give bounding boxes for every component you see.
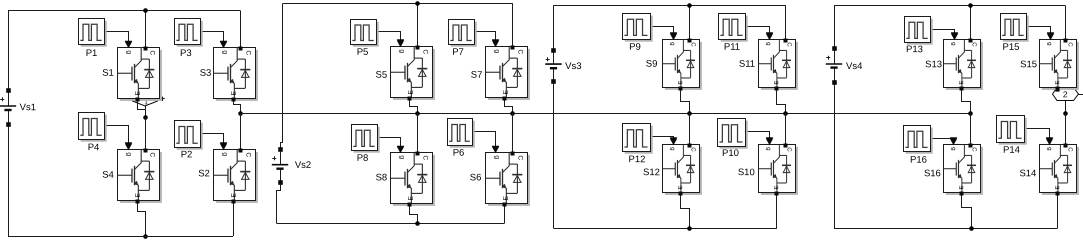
wire top bus to S3 collector: [240, 11, 242, 48]
svg-text:E: E: [1055, 81, 1061, 85]
wire P3 output to S3 gate: [200, 32, 228, 48]
svg-text:E: E: [678, 186, 684, 190]
wire S4 emitter to bottom bus: [138, 202, 146, 237]
svg-text:E: E: [135, 91, 142, 96]
svg-text:C: C: [421, 155, 428, 160]
svg-text:C: C: [516, 155, 523, 160]
wire S9 collector to top bus: [689, 5, 691, 39]
node A (S1/S4 midpoint): [143, 115, 148, 120]
pulse generator P5: [351, 20, 379, 58]
wire S1 emitter to node A: [138, 100, 146, 118]
wire S5 collector to top bus: [417, 3, 419, 46]
svg-text:C: C: [421, 49, 428, 54]
svg-text:g: g: [1046, 147, 1052, 150]
svg-text:C: C: [516, 49, 523, 54]
wire P4 output to S4 gate: [105, 126, 133, 150]
wire Vs2 - terminal to bottom bus: [277, 183, 281, 224]
wire rail to S16 collector: [970, 113, 972, 144]
wire rail to S6 collector: [512, 113, 514, 153]
svg-text:P10: P10: [722, 148, 739, 159]
svg-text:g: g: [493, 49, 500, 53]
wire top bus cell 3 left drop to Vs3: [553, 5, 555, 50]
svg-text:E: E: [959, 186, 965, 190]
svg-text:g: g: [398, 155, 405, 159]
wire top bus cell 4: [834, 5, 1065, 7]
pulse generator P7: [449, 20, 477, 58]
wire cascade rail (node B to cell 4): [240, 113, 970, 115]
wire P5 output to S5 gate: [378, 32, 405, 47]
svg-text:S15: S15: [1020, 59, 1037, 70]
DC voltage source Vs1: [0, 88, 36, 127]
svg-text:P1: P1: [86, 48, 98, 59]
wire top bus cell 2: [283, 3, 513, 5]
wire bottom bus cell 4: [834, 228, 1058, 230]
node C (port 2 / S14 collector): [1063, 111, 1068, 116]
wire port 1 to node A: [145, 106, 147, 117]
wire P16 output to S16 gate: [931, 137, 958, 144]
svg-text:P14: P14: [1003, 145, 1020, 156]
wire top bus cell 4 left drop to Vs4: [834, 5, 836, 48]
pulse generator P4: [79, 113, 107, 154]
DC voltage source Vs2: [272, 147, 311, 185]
svg-text:S12: S12: [643, 167, 660, 178]
svg-text:C: C: [690, 42, 696, 47]
IGBT/diode S14: [1019, 139, 1078, 196]
node rail / S9 leg junction: [687, 111, 692, 116]
wire S5 emitter to rail: [410, 99, 418, 114]
svg-text:E: E: [1055, 186, 1061, 190]
node rail end / S13 leg junction: [968, 111, 973, 116]
svg-text:E: E: [408, 196, 415, 201]
wire P14 output to S14 gate: [1025, 129, 1054, 145]
svg-text:Vs3: Vs3: [565, 61, 581, 72]
svg-text:S14: S14: [1019, 168, 1036, 179]
wire Vs1 left drop (top bus to Vs1 + terminal): [8, 11, 10, 91]
node rail / S5 leg junction: [415, 111, 420, 116]
svg-text:S5: S5: [375, 70, 387, 81]
output port 1 (+ terminal tag): [133, 93, 165, 107]
wire P12 output to S12 gate: [651, 137, 678, 145]
wire P9 output to S9 gate: [651, 27, 678, 40]
node top bus / S9 collector junction: [687, 3, 692, 8]
IGBT/diode S2: [198, 144, 258, 204]
node B (S3/S2 midpoint): [238, 111, 243, 116]
svg-text:g: g: [765, 147, 771, 150]
wire P11 output to S11 gate: [746, 27, 774, 40]
node top bus / S5 collector junction: [415, 1, 420, 6]
svg-text:E: E: [135, 193, 142, 198]
output port 2 (- terminal tag): [1053, 87, 1083, 100]
svg-text:g: g: [493, 155, 500, 159]
svg-text:P11: P11: [724, 42, 740, 53]
node top bus / S13 collector junction: [968, 3, 973, 8]
wire Vs1 - terminal to bottom bus: [8, 124, 10, 236]
IGBT/diode S11: [739, 34, 798, 91]
wire Vs4 - terminal to bottom bus: [834, 82, 836, 228]
svg-text:E: E: [678, 81, 684, 85]
wire P8 output to S8 gate: [378, 138, 405, 153]
svg-text:E: E: [503, 196, 510, 201]
svg-text:S1: S1: [102, 68, 114, 79]
IGBT/diode S9: [646, 34, 702, 91]
wire S6 emitter to bottom bus: [504, 205, 506, 224]
pulse generator P3: [175, 19, 203, 60]
svg-text:C: C: [148, 50, 155, 55]
svg-text:C: C: [786, 147, 792, 152]
wire S8 emitter to bottom bus: [410, 205, 418, 224]
pulse generator P15: [1001, 14, 1029, 53]
pulse generator P10: [718, 119, 748, 160]
wire S14 emitter to bottom bus: [1057, 193, 1059, 228]
svg-text:Vs4: Vs4: [846, 61, 862, 72]
svg-text:C: C: [786, 42, 792, 47]
svg-text:g: g: [669, 42, 675, 45]
wire rail to S12 collector: [689, 113, 691, 144]
svg-text:C: C: [971, 147, 977, 152]
wire bottom bus cell 2: [277, 223, 505, 225]
svg-text:P9: P9: [629, 42, 641, 53]
svg-text:g: g: [221, 50, 228, 54]
IGBT/diode S13: [925, 34, 983, 91]
pulse generator P11: [719, 14, 748, 53]
svg-text:S2: S2: [198, 168, 210, 179]
pulse generator P13: [905, 17, 933, 56]
wire bottom bus cell 1: [8, 236, 233, 238]
wire P15 output to S15 gate: [1027, 27, 1055, 40]
wire S10 emitter to bottom bus: [776, 193, 778, 228]
wire top bus to S7 collector: [512, 3, 514, 46]
svg-text:C: C: [148, 152, 155, 157]
wire P10 output to S10 gate: [746, 132, 774, 145]
IGBT/diode S6: [470, 147, 530, 207]
wire rail to S10 collector: [785, 113, 787, 144]
svg-text:C: C: [690, 147, 696, 152]
svg-text:P5: P5: [357, 47, 369, 58]
wire P13 output to S13 gate: [931, 30, 959, 40]
wire port 2 to node C: [1065, 101, 1067, 114]
svg-text:S6: S6: [470, 172, 482, 183]
wire top bus to S11 collector: [785, 5, 787, 39]
wire S9 emitter to rail: [681, 89, 690, 114]
IGBT/diode S1: [102, 42, 162, 102]
svg-text:C: C: [971, 42, 977, 47]
svg-text:E: E: [503, 90, 510, 95]
IGBT/diode S7: [471, 41, 530, 101]
node top bus / S1 collector junction: [143, 8, 148, 13]
svg-text:S8: S8: [376, 172, 388, 183]
node bottom bus cell 1 junction: [143, 234, 148, 239]
svg-text:g: g: [398, 49, 405, 53]
svg-text:P12: P12: [629, 154, 646, 165]
wire top bus to S15 collector: [1065, 5, 1067, 39]
svg-text:P16: P16: [910, 155, 927, 166]
wire P6 output to S6 gate: [473, 132, 500, 153]
svg-text:g: g: [950, 147, 956, 150]
pulse generator P8: [352, 125, 380, 164]
pulse generator P14: [997, 116, 1027, 156]
svg-text:S16: S16: [924, 168, 941, 179]
wire top bus cell 1: [8, 10, 240, 12]
node rail / S7 leg junction: [510, 111, 515, 116]
svg-text:P13: P13: [906, 44, 923, 55]
svg-text:E: E: [231, 91, 238, 96]
wire S3 emitter to node B: [234, 100, 241, 114]
node rail / S11 leg junction: [783, 111, 788, 116]
IGBT/diode S16: [924, 139, 983, 196]
svg-text:g: g: [221, 152, 228, 156]
node bottom bus cell 3 junction: [687, 226, 692, 231]
svg-text:E: E: [231, 193, 238, 198]
svg-text:C: C: [1067, 147, 1073, 152]
wire rail to S8 collector: [417, 113, 419, 153]
svg-text:S9: S9: [646, 59, 658, 70]
pulse generator P9: [623, 14, 653, 53]
wire node A to S4 collector: [145, 117, 147, 149]
IGBT/diode S12: [643, 139, 702, 196]
svg-text:P2: P2: [181, 149, 193, 160]
wire S11 emitter to rail: [777, 89, 786, 114]
svg-text:S7: S7: [471, 70, 483, 81]
wire node C to S14 collector: [1065, 113, 1067, 144]
wire S15 emitter to port 2: [1057, 88, 1059, 91]
svg-text:g: g: [669, 147, 675, 150]
svg-text:Vs2: Vs2: [295, 160, 311, 171]
pulse generator P2: [175, 121, 203, 161]
node bottom bus cell 2 junction: [415, 221, 420, 226]
pulse generator P6: [448, 119, 475, 159]
wire P1 output to S1 gate: [104, 32, 133, 48]
IGBT/diode S15: [1020, 34, 1079, 91]
wire Vs3 - terminal to bottom bus: [553, 81, 555, 228]
wire S12 emitter to bottom bus: [681, 194, 690, 229]
svg-text:P3: P3: [180, 48, 192, 59]
svg-text:S4: S4: [102, 170, 114, 181]
wire S7 emitter to rail: [505, 99, 513, 114]
svg-text:S13: S13: [925, 59, 942, 70]
IGBT/diode S4: [102, 144, 162, 204]
svg-text:P4: P4: [88, 142, 100, 153]
svg-text:g: g: [1046, 42, 1052, 45]
pulse generator P1: [79, 19, 107, 60]
IGBT/diode S5: [375, 41, 434, 101]
wire S1 collector to top bus: [145, 11, 147, 48]
wire node B to S2 collector: [240, 113, 242, 149]
IGBT/diode S3: [200, 42, 258, 102]
DC voltage source Vs4: [826, 46, 863, 85]
svg-text:P15: P15: [1003, 42, 1020, 53]
wire bottom bus cell 3: [554, 228, 777, 230]
wire S16 emitter to bottom bus: [962, 194, 972, 229]
svg-text:g: g: [125, 152, 132, 156]
node bottom bus cell 4 junction: [969, 226, 974, 231]
wire S13 emitter to rail: [962, 89, 971, 114]
svg-text:E: E: [774, 186, 780, 190]
svg-text:C: C: [244, 50, 251, 55]
wire S13 collector to top bus: [970, 5, 972, 39]
wire P2 output to S2 gate: [200, 134, 228, 150]
svg-text:P8: P8: [357, 153, 369, 164]
svg-text:2: 2: [1063, 89, 1068, 99]
IGBT/diode S8: [376, 147, 435, 207]
svg-text:E: E: [408, 90, 415, 95]
wire top bus cell 2 left drop to Vs2: [281, 4, 283, 150]
svg-text:P7: P7: [452, 47, 464, 58]
IGBT/diode S10: [738, 139, 798, 196]
svg-text:C: C: [244, 152, 251, 157]
svg-text:g: g: [765, 42, 771, 45]
svg-text:P6: P6: [453, 148, 465, 159]
svg-text:S11: S11: [739, 59, 755, 70]
pulse generator P16: [904, 126, 933, 166]
svg-text:E: E: [774, 81, 780, 85]
svg-text:Vs1: Vs1: [20, 102, 36, 113]
wire P7 output to S7 gate: [475, 32, 500, 47]
svg-text:C: C: [1067, 42, 1073, 47]
svg-text:S3: S3: [200, 68, 212, 79]
DC voltage source Vs3: [545, 48, 581, 84]
svg-text:g: g: [125, 50, 132, 54]
svg-text:E: E: [959, 81, 965, 85]
wire top bus cell 3: [554, 5, 786, 7]
svg-text:g: g: [950, 42, 956, 45]
svg-text:S10: S10: [738, 167, 755, 178]
pulse generator P12: [623, 124, 653, 166]
wire S2 emitter to bottom bus: [233, 201, 235, 236]
